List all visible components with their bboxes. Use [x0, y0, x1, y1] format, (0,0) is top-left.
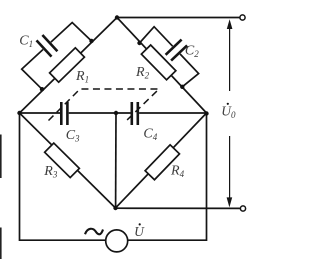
svg-text:U: U [134, 224, 145, 239]
